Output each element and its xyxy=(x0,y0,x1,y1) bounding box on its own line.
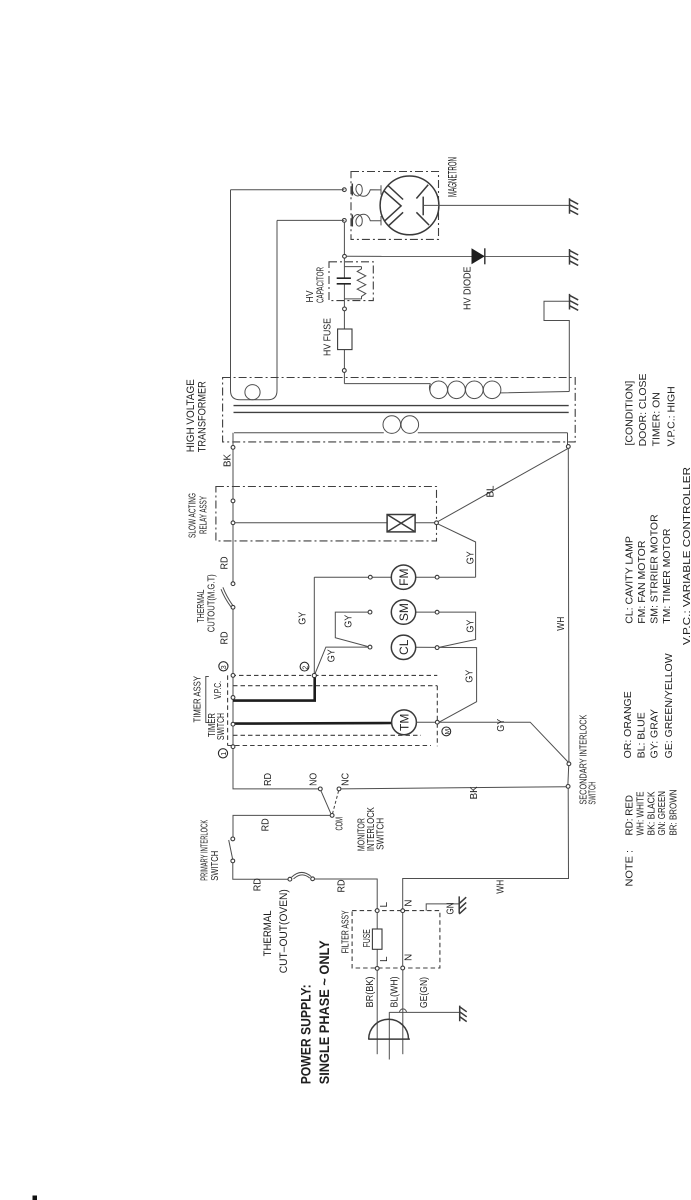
filter assy box (dashed) xyxy=(352,911,440,968)
monitor interlock blade (solid to NO) xyxy=(321,791,331,814)
wire to thermal cutout oven xyxy=(233,863,288,879)
transformer core xyxy=(234,406,569,413)
transformer primary leads xyxy=(233,433,568,446)
wire N prong xyxy=(402,970,404,1054)
thermal cutout MGT blade xyxy=(221,587,233,607)
svg-text:CL: CAVITY LAMP: CL: CAVITY LAMP xyxy=(624,536,636,624)
filter terminals L N top xyxy=(375,909,379,913)
svg-text:BL: BLUE: BL: BLUE xyxy=(636,712,648,758)
svg-text:HV FUSE: HV FUSE xyxy=(321,318,333,356)
wire GE to chassis xyxy=(389,1009,459,1012)
svg-text:GN: GREEN: GN: GREEN xyxy=(656,791,668,836)
legend abbreviations group 3 xyxy=(624,467,691,645)
node 2 xyxy=(300,662,309,671)
filter terminals L N bottom xyxy=(375,967,379,971)
svg-text:POWER SUPPLY:: POWER SUPPLY: xyxy=(298,984,314,1084)
junction node at transformer top xyxy=(342,369,346,373)
magnetron heater coil upper xyxy=(352,184,381,196)
secondary interlock contact 2 xyxy=(566,785,570,789)
high voltage transformer box (dashed) xyxy=(223,378,576,442)
thermal cutout oven blade xyxy=(292,872,312,878)
wire left rail upper xyxy=(232,449,234,583)
feedthrough ticks on magnetron box border xyxy=(351,184,353,227)
svg-text:SM: SM xyxy=(397,603,411,621)
wire FM left xyxy=(314,576,391,578)
svg-text:GY: GY xyxy=(465,551,476,564)
wire relay coil xyxy=(235,522,435,524)
node M xyxy=(442,727,451,736)
slow acting relay assy box (dashed) xyxy=(216,487,437,541)
wire upper heater lead xyxy=(231,190,345,384)
svg-text:PRIMARY INTERLOCK: PRIMARY INTERLOCK xyxy=(200,820,211,881)
wire COM to primary interlock xyxy=(233,815,330,837)
thermal cutout oven contacts xyxy=(288,877,292,881)
junction relay output xyxy=(435,521,439,525)
svg-text:M: M xyxy=(444,729,451,734)
timer assy outer box (dashed) xyxy=(228,675,438,745)
svg-text:GY: GRAY: GY: GRAY xyxy=(648,709,660,758)
HV fuse xyxy=(338,329,352,350)
svg-text:NOTE :: NOTE : xyxy=(624,850,636,887)
svg-text:SWITCH: SWITCH xyxy=(210,851,221,881)
svg-text:RD: RD xyxy=(261,818,272,831)
wire HV secondary left xyxy=(344,383,430,385)
svg-text:MAGNETRON: MAGNETRON xyxy=(445,157,459,197)
svg-text:NC: NC xyxy=(341,773,352,786)
ground chassis GE xyxy=(460,1006,467,1022)
wire BK to secondary interlock xyxy=(341,787,566,789)
svg-text:TRANSFORMER: TRANSFORMER xyxy=(197,381,209,452)
svg-text:GY: GY xyxy=(496,718,507,731)
svg-text:TM: TIMER MOTOR: TM: TIMER MOTOR xyxy=(661,528,673,624)
svg-text:COM: COM xyxy=(334,817,345,831)
svg-text:CUTOUT(M.G.T): CUTOUT(M.G.T) xyxy=(205,574,217,632)
wire to filter L xyxy=(315,879,378,909)
filter fuse xyxy=(376,913,378,967)
wire SM right link xyxy=(416,612,476,647)
svg-text:HV DIODE: HV DIODE xyxy=(461,267,473,311)
svg-text:N: N xyxy=(403,900,414,907)
svg-text:TM: TM xyxy=(397,714,411,731)
relay contact terminals xyxy=(231,499,235,503)
wire N through filter xyxy=(402,913,404,967)
svg-text:L: L xyxy=(379,956,390,962)
wire WH rail xyxy=(403,448,569,908)
svg-text:SM: STRRIER MOTOR: SM: STRRIER MOTOR xyxy=(649,514,661,624)
monitor interlock switch NO contact xyxy=(318,787,322,791)
node 3 xyxy=(219,662,228,671)
svg-text:3: 3 xyxy=(221,665,228,669)
svg-text:HIGH VOLTAGE: HIGH VOLTAGE xyxy=(185,379,197,452)
svg-text:FM: FM xyxy=(397,569,411,586)
thermal cutout MGT contacts xyxy=(231,582,235,586)
primary interlock contacts xyxy=(231,837,235,841)
junction node HV cap bottom xyxy=(343,307,347,311)
wire CL right xyxy=(416,647,477,722)
svg-text:N: N xyxy=(403,954,414,961)
magnetron box (dashed enclosure) xyxy=(351,172,439,240)
svg-text:BK: BK xyxy=(469,786,480,799)
ground chassis GN xyxy=(459,896,466,914)
secondary interlock contact 1 xyxy=(567,762,571,766)
svg-text:SINGLE PHASE ~ ONLY: SINGLE PHASE ~ ONLY xyxy=(316,940,332,1085)
svg-text:THERMAL: THERMAL xyxy=(262,910,274,956)
timer motor TM xyxy=(392,710,417,735)
wire FM right xyxy=(416,576,476,578)
svg-text:TIMER ASSY: TIMER ASSY xyxy=(191,676,203,723)
svg-text:SWITCH: SWITCH xyxy=(376,818,387,850)
legend colors group 2 xyxy=(622,653,675,758)
svg-text:FUSE: FUSE xyxy=(362,929,373,947)
junction node 2 on border xyxy=(312,673,316,677)
svg-text:CAPACITOR: CAPACITOR xyxy=(314,267,326,303)
ground chassis 2 xyxy=(570,249,579,265)
svg-text:V.P.C.: VARIABLE CONTROLLER: V.P.C.: VARIABLE CONTROLLER xyxy=(681,467,691,645)
svg-text:FM: FAN MOTOR: FM: FAN MOTOR xyxy=(636,540,648,624)
wire HV diode xyxy=(346,255,569,257)
svg-text:SWITCH: SWITCH xyxy=(216,713,227,740)
wire lower heater lead xyxy=(277,220,344,383)
svg-text:GN: GN xyxy=(446,903,457,915)
svg-text:NO: NO xyxy=(309,773,320,786)
wire left rail lower xyxy=(233,609,319,789)
HV capacitor plates xyxy=(337,278,351,284)
svg-text:FILTER ASSY: FILTER ASSY xyxy=(340,910,352,953)
wire GY bus xyxy=(313,577,315,674)
svg-text:GY: GY xyxy=(298,611,309,624)
svg-text:V.P.C.: HIGH: V.P.C.: HIGH xyxy=(666,386,678,446)
monitor interlock switch NC contact xyxy=(337,787,341,791)
svg-text:RD: RD xyxy=(220,557,231,570)
svg-text:L: L xyxy=(379,902,390,908)
svg-text:RD: RD xyxy=(220,632,231,645)
svg-text:GY: GY xyxy=(464,670,475,683)
svg-text:GE(GN): GE(GN) xyxy=(419,977,430,1008)
svg-text:BL: BL xyxy=(486,485,497,497)
svg-text:CL: CL xyxy=(397,639,411,655)
node 1 xyxy=(218,749,227,758)
transformer HV secondary winding xyxy=(429,381,569,399)
junction node HV cap top xyxy=(343,254,347,258)
wire SM left link xyxy=(335,612,369,647)
wire HV chain vertical xyxy=(343,222,345,384)
page mark xyxy=(33,1196,38,1200)
svg-text:OR: ORANGE: OR: ORANGE xyxy=(622,691,634,758)
wire BL diagonal to transformer xyxy=(438,448,568,521)
timer assy bracket xyxy=(206,677,209,723)
fan motor FM xyxy=(391,565,415,589)
svg-text:BL(WH): BL(WH) xyxy=(390,977,401,1008)
svg-text:RD: RD xyxy=(263,773,274,786)
wire CL left xyxy=(314,647,368,675)
svg-text:BK: BK xyxy=(223,454,234,467)
wire L prong xyxy=(376,970,378,1054)
terminal transformer left (BK) xyxy=(231,446,235,450)
svg-text:GY: GY xyxy=(465,619,476,632)
magnetron xyxy=(380,176,439,235)
wire GN to chassis xyxy=(426,904,459,911)
svg-text:SWITCH: SWITCH xyxy=(588,782,599,805)
svg-text:V.P.C.: V.P.C. xyxy=(213,681,224,699)
svg-text:GY: GY xyxy=(344,615,355,628)
svg-text:WH: WH xyxy=(496,880,507,894)
svg-text:DOOR: CLOSE: DOOR: CLOSE xyxy=(637,373,649,446)
ground chassis 3 xyxy=(570,294,579,310)
bleeder resistor xyxy=(345,267,366,300)
timer assy inner box (dashed) xyxy=(233,686,437,747)
secondary interlock blade xyxy=(567,766,570,785)
transformer filament winding xyxy=(231,384,278,400)
terminal transformer right (WH) xyxy=(566,445,570,449)
magnetron heater coil lower xyxy=(352,214,381,226)
transformer primary winding xyxy=(234,416,568,434)
HV capacitor box (dashed) xyxy=(329,262,373,301)
svg-text:GY: GY xyxy=(327,649,338,662)
monitor interlock dashed link to NC xyxy=(333,791,339,814)
svg-text:BR(BK): BR(BK) xyxy=(365,977,376,1008)
chassis link from HV secondary xyxy=(544,301,569,391)
monitor interlock COM contact xyxy=(330,814,334,818)
svg-text:2: 2 xyxy=(302,666,309,670)
wire GY diagonal to fan motor xyxy=(438,524,476,577)
svg-text:RD: RD xyxy=(252,878,263,891)
svg-text:[CONDITION]: [CONDITION] xyxy=(623,381,635,446)
wire TM right xyxy=(416,722,569,763)
svg-text:GE: GREEN/YELLOW: GE: GREEN/YELLOW xyxy=(663,653,675,758)
legend condition group 4 xyxy=(623,373,677,446)
primary interlock blade xyxy=(229,840,233,860)
svg-text:WH: WH xyxy=(556,617,567,631)
svg-text:TIMER: ON: TIMER: ON xyxy=(651,392,663,446)
HV diode xyxy=(472,248,485,264)
wire GE prong xyxy=(388,1012,390,1059)
power plug dome xyxy=(368,1019,410,1039)
svg-text:RD: RD xyxy=(336,880,347,893)
wire TM link (thick) xyxy=(233,722,392,725)
relay coil (box with X) xyxy=(387,515,415,532)
heater terminal circles xyxy=(342,188,346,192)
svg-text:RELAY ASSY: RELAY ASSY xyxy=(197,496,209,534)
svg-text:BR: BROWN: BR: BROWN xyxy=(668,790,680,836)
svg-text:1: 1 xyxy=(221,752,228,756)
cavity lamp CL xyxy=(391,635,415,659)
wire magnetron output to chassis xyxy=(423,204,569,206)
legend note group xyxy=(624,790,680,887)
timer rail contacts xyxy=(231,674,235,678)
wire VPC link (thick) xyxy=(233,678,315,701)
stirrer motor SM xyxy=(391,600,415,624)
ground chassis 1 xyxy=(570,198,579,214)
svg-text:CUT–OUT(OVEN): CUT–OUT(OVEN) xyxy=(278,889,290,973)
